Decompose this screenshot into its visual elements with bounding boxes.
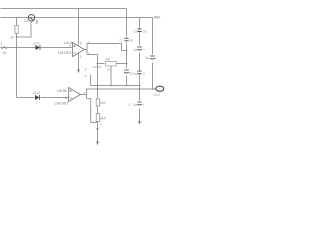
wire left rail x=16 down bbox=[16, 37, 18, 98]
junction x97 y90 bbox=[97, 88, 99, 90]
wire rail x=126 lower bbox=[126, 76, 128, 86]
diode D2 bbox=[35, 95, 40, 100]
svg-text:1: 1 bbox=[88, 51, 90, 55]
svg-text:1k2: 1k2 bbox=[100, 101, 106, 105]
wire cap chain x=139.5 top bbox=[139, 18, 141, 29]
svg-text:2: 2 bbox=[88, 40, 90, 44]
wire left chain top stub bbox=[16, 18, 18, 26]
wire cap chain lower bbox=[139, 89, 141, 101]
wire R9 box tap down bbox=[110, 66, 112, 86]
wire cap chain mid1 bbox=[139, 32, 141, 46]
svg-text:1n: 1n bbox=[129, 39, 133, 43]
svg-text:OUT: OUT bbox=[154, 93, 161, 97]
svg-text:7: 7 bbox=[83, 92, 85, 96]
wire op-amp B output stub bbox=[81, 94, 87, 96]
svg-text:3: 3 bbox=[85, 68, 87, 72]
svg-text:2k0: 2k0 bbox=[107, 67, 112, 71]
ground arrow op-amp A bbox=[77, 70, 80, 74]
wire node x=97 vertical bbox=[97, 64, 99, 99]
ground cross chain x=139.5 bbox=[138, 120, 142, 124]
wire junction to circle loop bbox=[17, 21, 32, 37]
op-amp U5A bbox=[73, 43, 85, 57]
wire stub x=90 bbox=[90, 75, 92, 86]
svg-text:+: + bbox=[142, 103, 144, 107]
svg-text:1u: 1u bbox=[143, 30, 147, 34]
svg-text:1u: 1u bbox=[145, 56, 149, 60]
capacitor C4 polarized on VCC rail bbox=[150, 56, 155, 59]
svg-text:LM7301: LM7301 bbox=[55, 102, 69, 106]
wire cap chain bottom bbox=[139, 109, 141, 122]
svg-text:VS+: VS+ bbox=[154, 16, 162, 20]
wire resistor chain x=97 bbox=[97, 98, 99, 101]
junction chain y85 bbox=[139, 85, 141, 87]
op-amp U5B bbox=[69, 88, 81, 102]
wire diode D2 to op-amp B bbox=[41, 97, 69, 99]
svg-text:6: 6 bbox=[65, 96, 67, 100]
current source CS1 circle bbox=[28, 14, 35, 21]
capacitor C7 on rail x=126 bbox=[124, 35, 128, 45]
wire chain to ground arrow bbox=[97, 122, 99, 142]
diode D1 bbox=[36, 45, 41, 50]
junction chain y89.5 bbox=[139, 88, 141, 90]
junction left bbox=[16, 36, 18, 38]
wire op-amp A output split vertical bbox=[86, 44, 88, 55]
svg-text:1u: 1u bbox=[134, 103, 138, 107]
wire op-amp B output split vertical bbox=[86, 89, 88, 99]
junction VCC rail bottom bbox=[152, 88, 154, 90]
wire rail x=126 middle bbox=[126, 45, 128, 69]
svg-text:LM7301: LM7301 bbox=[58, 51, 72, 55]
junction x97 y85 bbox=[97, 85, 99, 87]
svg-text:D12: D12 bbox=[34, 91, 41, 95]
svg-text:D11: D11 bbox=[34, 42, 40, 46]
capacitor C5 polarized lower chain bbox=[137, 102, 142, 105]
svg-text:1: 1 bbox=[100, 122, 102, 126]
resistor R5 chain bbox=[96, 99, 100, 106]
wire op-amp A top branch bbox=[87, 44, 127, 51]
svg-text:1k: 1k bbox=[10, 36, 14, 40]
svg-text:3: 3 bbox=[69, 44, 71, 48]
svg-text:4: 4 bbox=[85, 75, 87, 79]
svg-text:1u: 1u bbox=[133, 48, 137, 52]
svg-text:+: + bbox=[143, 48, 145, 52]
svg-text:1u: 1u bbox=[134, 72, 138, 76]
resistor R6 chain bbox=[96, 114, 100, 122]
connector stub left edge bbox=[1, 46, 8, 49]
wire top rail H1 bbox=[1, 8, 127, 10]
wire R network horizontal y=63 bbox=[98, 63, 105, 65]
wire rail x=152 lower bbox=[152, 63, 154, 90]
wire op-amp A lower power stub bbox=[78, 54, 80, 71]
svg-text:CM0805: CM0805 bbox=[93, 66, 103, 69]
svg-text:2u: 2u bbox=[129, 72, 133, 76]
junction op-amp A top branch bbox=[126, 50, 128, 52]
connector pad OUT oval bbox=[156, 86, 164, 91]
junction R network bbox=[126, 63, 128, 65]
wire between chain resistors bbox=[97, 106, 99, 114]
ground arrow chain bbox=[96, 142, 99, 146]
svg-text:2: 2 bbox=[129, 103, 131, 107]
wire rect bottom y=85 bbox=[91, 85, 140, 87]
capacitor C2 polarized chain bbox=[137, 47, 142, 50]
wire cap chain mid3 bbox=[139, 74, 141, 89]
junction chain y122 bbox=[97, 128, 99, 130]
svg-text:2: 2 bbox=[80, 55, 82, 59]
svg-text:R9: R9 bbox=[106, 58, 110, 62]
wire input B from left rail bbox=[17, 97, 35, 99]
wire diode D1 to op-amp A bbox=[41, 47, 73, 49]
wire op-amp A power pin from H1 bbox=[78, 9, 80, 46]
junction box tap y85 bbox=[110, 85, 112, 87]
wire cap chain mid2 bbox=[139, 53, 141, 71]
wire op-amp B lower branch bbox=[87, 99, 98, 123]
svg-text:IN: IN bbox=[3, 51, 7, 55]
wire R box to rail bbox=[117, 63, 127, 65]
junction rail bottom bbox=[126, 85, 128, 87]
resistor R1 left chain bbox=[15, 26, 18, 34]
svg-text:1: 1 bbox=[1, 42, 3, 46]
resistor R9 box bbox=[106, 61, 117, 66]
capacitor C8 polarized on rail x=126 bbox=[124, 70, 129, 73]
wire second rail H2 bbox=[1, 17, 153, 19]
wire left chain to junction bbox=[16, 34, 18, 38]
svg-text:+: + bbox=[155, 57, 157, 61]
junction x97 y63 bbox=[97, 63, 99, 65]
wire input A from left edge bbox=[1, 47, 36, 49]
junction input A bbox=[16, 47, 18, 49]
svg-text:5: 5 bbox=[65, 89, 67, 93]
wire op-amp A output stub bbox=[85, 49, 88, 51]
svg-text:3k4: 3k4 bbox=[100, 117, 106, 121]
wire op-amp B out to connector bbox=[87, 88, 156, 90]
wire right rail x=126 down from H1 bbox=[126, 9, 128, 35]
svg-text:C1: C1 bbox=[134, 30, 138, 34]
svg-text:G1: G1 bbox=[24, 19, 29, 23]
wire VCC rail x=152 down from H2 bbox=[152, 18, 154, 55]
capacitor C1 top of chain bbox=[137, 29, 141, 32]
svg-text:5: 5 bbox=[80, 42, 82, 46]
wire op-amp A bottom branch bbox=[87, 55, 98, 64]
capacitor C3 chain bbox=[137, 71, 141, 74]
